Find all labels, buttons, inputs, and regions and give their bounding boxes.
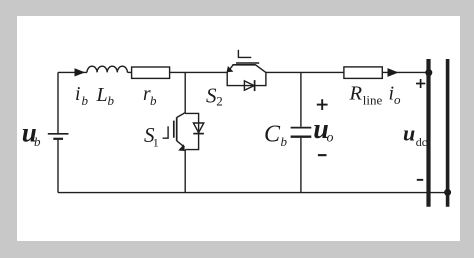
capacitor Cb bottom plate [291, 136, 312, 138]
label + capacitor [317, 99, 328, 110]
transistor S2 gate lead [238, 50, 251, 58]
capacitor Cb top plate [291, 127, 312, 129]
arrow S2 emitter [227, 66, 234, 72]
svg-text:b: b [34, 134, 41, 149]
battery ub positive plate [48, 133, 69, 135]
label - bus [417, 179, 423, 181]
DC bus negative bar [446, 59, 450, 207]
node B bottom bus junction [444, 189, 451, 196]
node A top bus junction [425, 69, 432, 76]
diode D2 cathode bar [254, 80, 256, 91]
DC bus positive bar [426, 59, 430, 207]
svg-text:R: R [349, 82, 363, 104]
diode D1 cathode bar [193, 133, 204, 135]
transistor S1 emitter lead [177, 141, 185, 147]
wire: S1 branch to bottom rail [184, 150, 186, 193]
transistor S1 gate lead [163, 126, 169, 138]
svg-text:o: o [394, 92, 401, 107]
battery ub negative plate [53, 138, 63, 140]
svg-text:2: 2 [216, 94, 223, 109]
svg-text:o: o [327, 131, 334, 146]
wire: coil to resistor rb [127, 71, 131, 73]
arrow io current [388, 68, 399, 77]
svg-text:b: b [150, 93, 157, 108]
svg-text:b: b [108, 93, 115, 108]
arrow ib current [75, 68, 86, 76]
wire: S1 branch down from top rail [184, 72, 186, 113]
transistor S2 gate plate [236, 62, 259, 64]
transistor S1 body bar [176, 117, 178, 141]
label + bus [416, 79, 425, 88]
svg-text:i: i [75, 84, 80, 105]
wire: S2 diode loop [227, 72, 266, 85]
resistor Rline body [344, 67, 382, 79]
svg-text:b: b [82, 93, 89, 108]
transistor S1 collector lead [177, 113, 186, 118]
diode D1 triangle [193, 123, 203, 133]
wire: bottom rail [58, 192, 448, 194]
wire: rb to S2 [170, 71, 228, 73]
transistor S2 body bar [232, 64, 255, 66]
transistor S1 gate plate [173, 121, 175, 138]
wire: capacitor branch bottom [300, 138, 302, 193]
svg-text:dc: dc [416, 135, 427, 149]
label - capacitor [318, 154, 327, 156]
svg-text:b: b [281, 134, 288, 149]
wire: top rail S2 to bus [266, 71, 427, 73]
wire: left vertical (battery bottom segment) [57, 140, 59, 193]
svg-text:1: 1 [153, 136, 159, 150]
transistor S2 collector lead [256, 65, 266, 73]
wire: S1 diode loop [185, 113, 198, 149]
svg-text:C: C [264, 121, 281, 147]
svg-text:u: u [403, 121, 415, 146]
transistor S2 emitter lead [227, 65, 233, 73]
svg-text:L: L [96, 84, 108, 106]
wire: capacitor branch top [300, 72, 302, 126]
wire: left vertical (battery top segment) [57, 72, 59, 133]
inductor Lb coil [87, 66, 127, 72]
wire: top rail left of inductor [58, 71, 87, 73]
diode D2 triangle [244, 81, 254, 90]
resistor rb body [132, 67, 170, 78]
svg-text:line: line [363, 93, 383, 108]
arrow S1 emitter [178, 144, 185, 151]
